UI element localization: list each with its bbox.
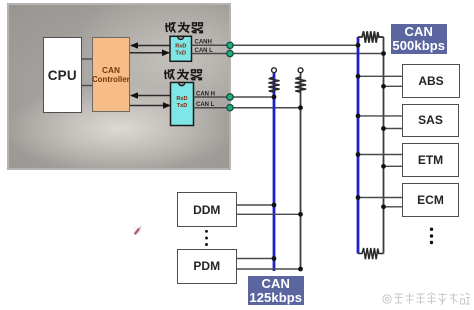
ECU node PDM (177, 249, 238, 285)
svg-text:CAN L: CAN L (195, 48, 214, 54)
svg-text:CAN H: CAN H (196, 91, 215, 97)
ECU node DDM (177, 192, 238, 227)
wire controller to transceiver1 RxD (arrow left) (130, 42, 170, 49)
svg-text:TxD: TxD (177, 103, 188, 109)
transceiver U2 (RxD/TxD) (171, 83, 194, 126)
wire controller to transceiver2 TxD (arrow right) (130, 102, 171, 109)
junction ECM H (356, 195, 361, 200)
wire DDM stub L (237, 213, 301, 215)
junction ETM L (381, 164, 386, 169)
125kbps bus CAN-H line (blue) (273, 73, 276, 271)
500kbps bus CAN-L line (dark) (383, 37, 385, 254)
wire ECM stub H (358, 197, 402, 199)
watermark 稀土掘金技术社区 (382, 291, 474, 307)
junction CANH/blue (356, 43, 361, 48)
open terminal node (dark bus top) (298, 68, 303, 73)
ECU node ECM (402, 183, 459, 217)
junction ETM H (356, 152, 361, 157)
ECU node ABS (402, 64, 460, 98)
svg-text:TxD: TxD (176, 51, 187, 57)
wire PDM stub H (237, 258, 274, 260)
junction CANL/dark (381, 51, 386, 56)
junction DDM L (298, 212, 303, 217)
inductor/choke on blue 125k line (268, 77, 279, 92)
terminating resistor RT2 (bottom of 500k bus) (358, 248, 384, 259)
wire CPU to controller lower (82, 85, 93, 87)
wire ECM stub L (384, 206, 403, 208)
stray red cursor mark (134, 226, 142, 234)
wire ABS stub H (358, 75, 402, 77)
svg-text:RxD: RxD (176, 96, 187, 102)
inductor/choke on dark 125k line (295, 77, 306, 92)
node CANH (green) (227, 42, 233, 48)
junction CANH2/blue (272, 95, 277, 100)
CPU block (43, 37, 82, 113)
ellipsis below ECM (430, 228, 433, 245)
wire CANH transceiver2 to 125k bus (194, 96, 275, 98)
wire CANH transceiver1 to 500k bus (192, 44, 359, 46)
junction PDM L (298, 267, 303, 272)
wire CANL transceiver2 to 125k bus (194, 107, 301, 109)
transceiver label 1 (收发器) (164, 21, 205, 34)
junction CANL2/dark (298, 105, 303, 110)
svg-text:CANH: CANH (195, 40, 212, 46)
wire CPU to controller upper (82, 58, 93, 60)
wire PDM stub L (237, 268, 301, 270)
ellipsis between DDM and PDM (205, 230, 208, 246)
node CANL2 (green) (227, 105, 233, 111)
wire ETM stub H (358, 154, 402, 156)
junction ECM L (381, 204, 386, 209)
svg-text:RxD: RxD (175, 44, 186, 50)
ECU module panel (gray gradient block) (7, 3, 231, 170)
wire ETM stub L (384, 165, 403, 167)
junction PDM H (272, 256, 277, 261)
node CANH2 (green) (227, 94, 233, 100)
wire ABS stub L (384, 85, 403, 87)
svg-text:CAN L: CAN L (196, 102, 215, 108)
wire CANL transceiver1 to 500k bus (192, 53, 384, 55)
wire SAS stub H (358, 115, 402, 117)
wire SAS stub L (384, 128, 403, 130)
label CAN 125kbps (248, 276, 305, 305)
wire DDM stub H (237, 204, 274, 206)
terminating resistor RT1 (top of 500k bus) (358, 31, 384, 43)
wire controller to transceiver2 RxD (arrow left) (130, 92, 170, 99)
junction ABS L (381, 84, 386, 89)
node CANL (green) (227, 50, 233, 56)
transceiver label 2 (收发器) (163, 68, 204, 81)
junction DDM H (272, 203, 277, 208)
125kbps bus CAN-L line (dark) (300, 73, 302, 270)
open terminal node (blue bus top) (272, 68, 277, 73)
500kbps bus CAN-H line (blue) (357, 37, 360, 254)
junction SAS L (381, 126, 386, 131)
ECU node ETM (402, 143, 459, 177)
ECU node SAS (402, 104, 459, 138)
junction SAS H (356, 114, 361, 119)
label CAN 500kbps (391, 24, 448, 54)
CAN Controller block (92, 37, 130, 112)
transceiver U1 (RxD/TxD) (170, 36, 192, 61)
junction ABS H (356, 74, 361, 79)
wire controller to transceiver1 TxD (arrow right) (130, 50, 170, 57)
